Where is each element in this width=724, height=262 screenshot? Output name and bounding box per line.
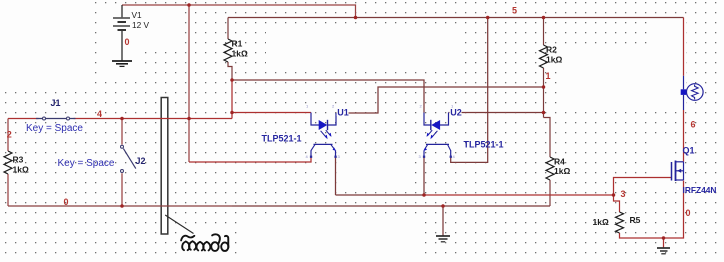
svg-text:1kΩ: 1kΩ [554,166,570,176]
svg-text:4: 4 [97,109,102,119]
wire U2 anode to R4 [449,112,544,114]
resistor R3 [4,151,12,174]
wire R3 bottom lead [7,174,9,206]
white patch behind lamp area [558,18,686,190]
net label 5 [512,6,517,16]
wire R3 top lead [7,119,9,152]
ground (right) [657,248,670,254]
svg-text:5: 5 [512,6,517,16]
net label 0 (battery) [125,37,130,47]
MOSFET Q1 [672,161,684,182]
net label 0 (ground rail) [64,197,69,207]
wire mid ground stub [442,206,444,236]
svg-text:0: 0 [125,37,130,47]
label J1 [51,98,61,108]
svg-text:Key = Space: Key = Space [58,158,115,169]
wire U1 LED anode branch y113 [232,112,311,114]
wire R2 bottom lead [543,68,545,118]
label V1 [132,10,143,20]
label R2 [546,45,562,65]
svg-text:U2: U2 [450,108,462,118]
svg-text:3: 3 [621,189,626,199]
wire battery top rail y5 [122,5,356,18]
net label 2 [7,130,12,140]
switch J1 [36,117,76,120]
wire switches net y118 [8,118,39,120]
svg-text:12 V: 12 V [132,20,150,30]
svg-text:1kΩ: 1kΩ [13,165,29,175]
optocoupler U2 (mirrored) [424,113,451,157]
wire R1 bottom jog [228,62,232,80]
white patch behind fence annotation [177,231,233,258]
wire net3 left [336,194,425,196]
svg-text:V1: V1 [132,10,143,20]
svg-text:6: 6 [691,120,696,130]
svg-text:R1: R1 [232,39,243,49]
wire lamp to Q1 drain net6 [683,110,685,162]
svg-text:1: 1 [546,71,551,81]
wire J2 bottom lead [121,173,123,206]
white patch top-center (empty annotation box) [266,32,461,66]
wire R2 top lead [543,18,545,46]
battery V1 [113,5,130,61]
pin numbers U1 [306,104,341,160]
wire R5 top lead [614,195,620,212]
label J2 [136,156,146,166]
svg-text:2: 2 [7,130,12,140]
net label 3 [621,189,626,199]
fence bar (annotation rectangle) [161,98,168,235]
wire net3 right [424,194,614,196]
label U2 [450,107,462,118]
wire +12V vertical x189 [188,5,190,162]
svg-text:IRFZ44N: IRFZ44N [683,185,717,195]
svg-text:U1: U1 [337,108,349,118]
svg-text:TLP521-1: TLP521-1 [464,140,504,150]
svg-text:1kΩ: 1kΩ [546,55,562,65]
white patch behind battery [104,7,181,74]
label R1 [232,39,248,59]
ground (battery) [112,61,132,66]
net label 0 (Q1 source) [686,208,691,218]
pin pads U1/U2 [310,156,452,158]
svg-text:1kΩ: 1kΩ [593,217,609,227]
label TLP521-1 (U2) [464,140,504,150]
svg-text:0: 0 [64,197,69,207]
svg-text:Key = Space: Key = Space [26,123,83,134]
label IRFZ44N [683,185,717,195]
switch J2 [121,145,136,172]
white patch bottom (empty annotation box) [242,217,421,254]
net label 4 [97,109,102,119]
label Key = Space (J2) [58,158,115,169]
svg-text:R2: R2 [546,45,557,55]
svg-text:R3: R3 [13,155,24,165]
wire U2 collector to +12 rail [451,18,488,163]
optocoupler U1 [311,113,336,157]
wire lamp top lead [683,18,685,76]
resistor R2 [540,45,548,68]
svg-text:J2: J2 [136,156,146,166]
resistor R5 [616,212,624,233]
wire R4 bottom lead [549,180,551,206]
wire U1 cathode to R2 bottom [336,87,544,113]
ground (mid) [436,236,450,242]
resistor R1 [224,39,232,62]
resistor R4 [546,157,554,180]
svg-text:J1: J1 [51,98,61,108]
wire to U1 collector y162 [189,157,311,163]
wire ground rail left [8,205,232,207]
label U1 [337,107,349,118]
wire R1 bottom to U2 LED y80 [232,80,424,113]
annotation text ghobe (Georgian, drawn as paths) [181,234,228,251]
label Q1 [683,146,695,156]
white patch top-left corner [0,0,95,88]
svg-text:R4: R4 [554,157,565,167]
wire top rail y18 [228,17,684,19]
pin numbers U2 [419,104,456,160]
svg-text:TLP521-1: TLP521-1 [262,134,302,144]
label Key = Space (J1) [26,123,83,134]
wire ground rail right [232,205,550,207]
wire Q1 gate [614,178,672,196]
svg-text:Q1: Q1 [683,146,695,156]
wire switches net y118 right part [74,118,233,120]
wire R1 bottom down to switch net [231,80,233,119]
svg-text:1kΩ: 1kΩ [232,49,248,59]
svg-text:R5: R5 [630,215,641,225]
white patch center (empty annotation box) [338,155,407,186]
leader line to fence [165,215,193,234]
wire R2-R4 jog [544,118,551,158]
net label 1 [546,71,551,81]
lamp [681,76,703,110]
wire U1 emitter down [335,157,337,196]
label R4 [554,157,570,177]
wire J2 top lead [121,119,123,145]
wire R5 bottom to Q1 source [620,181,684,239]
label 12 V [132,20,150,30]
net label 6 [691,120,696,130]
label R3 [13,155,29,175]
label TLP521-1 (U1) [262,134,302,144]
svg-text:0: 0 [686,208,691,218]
label R5 [593,215,641,227]
wire U2 emitter down [423,157,425,196]
wire R1 top lead [227,18,229,40]
wire right ground stub [663,238,665,247]
